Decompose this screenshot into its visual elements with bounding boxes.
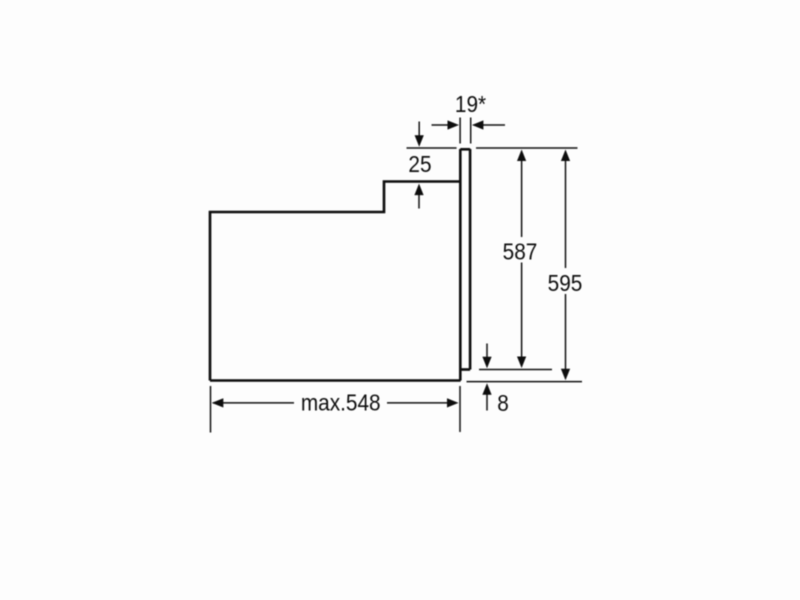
svg-text:595: 595 [548, 270, 583, 296]
svg-text:19*: 19* [455, 91, 487, 117]
svg-text:25: 25 [408, 151, 431, 177]
svg-text:max.548: max.548 [301, 389, 381, 415]
svg-text:8: 8 [497, 390, 509, 416]
svg-text:587: 587 [503, 239, 538, 265]
